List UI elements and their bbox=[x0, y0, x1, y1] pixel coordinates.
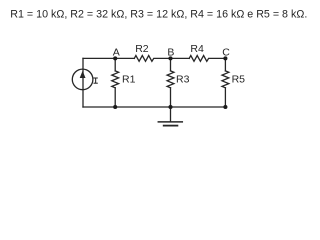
svg-text:R2: R2 bbox=[135, 43, 149, 55]
svg-text:A: A bbox=[113, 46, 120, 58]
svg-text:C: C bbox=[222, 46, 230, 58]
svg-text:R5: R5 bbox=[232, 73, 246, 85]
svg-text:R4: R4 bbox=[190, 43, 204, 55]
svg-text:R3: R3 bbox=[176, 73, 190, 85]
svg-text:B: B bbox=[167, 46, 174, 58]
svg-text:R1 = 10 kΩ, R2 = 32 kΩ, R3 = 1: R1 = 10 kΩ, R2 = 32 kΩ, R3 = 12 kΩ, R4 =… bbox=[10, 9, 307, 21]
svg-text:R1: R1 bbox=[122, 73, 136, 85]
